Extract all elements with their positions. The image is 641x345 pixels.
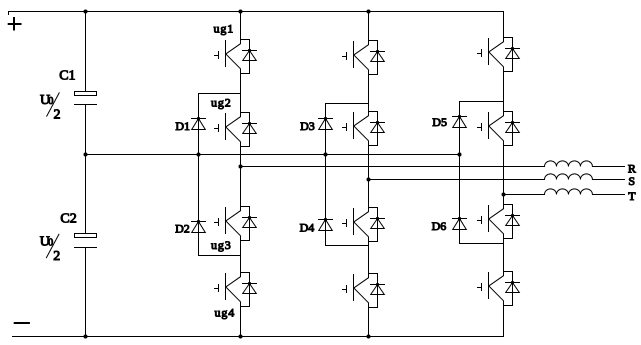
IGBT Q3 leg A: antiparallel diode cathode bar [243, 217, 257, 219]
clamp diode D3: cathode bar [319, 118, 333, 120]
IGBT Q4 leg C: antiparallel diode cathode bar [506, 282, 520, 284]
IGBT Q1 leg A: body bar [225, 41, 227, 67]
clamp diode D5: triangle [453, 117, 467, 128]
IGBT Q1 leg B: body bar [353, 42, 355, 68]
IGBT Q2 leg A: antiparallel diode triangle [243, 124, 257, 134]
IGBT Q2 leg C: gate bar [481, 124, 483, 131]
IGBT Q3 leg C: gate lead [478, 220, 482, 222]
IGBT Q1 leg B: diode junction dot [376, 50, 379, 53]
IGBT Q4 leg B: transistor body (collector stub, diagonals, emitter stub) [354, 274, 369, 308]
label ug4 [215, 305, 236, 319]
IGBT Q3 leg B: antiparallel diode cathode bar [371, 218, 385, 220]
wire: leg C lower clamp connection [460, 243, 504, 245]
node: bottom rail / capacitor branch junction [84, 335, 88, 339]
label C2 [60, 212, 76, 227]
svg-text:T: T [628, 189, 636, 203]
IGBT Q2 leg B: diode junction dot [376, 121, 379, 124]
IGBT Q1 leg C: diode junction dot [511, 47, 514, 50]
svg-text:C2: C2 [60, 212, 76, 227]
IGBT Q3 leg B: diode junction dot [376, 217, 379, 220]
IGBT Q4 leg A: transistor body (collector stub, diagonals, emitter stub) [226, 273, 241, 307]
IGBT Q4 leg B: body bar [353, 275, 355, 301]
IGBT Q2 leg C: collector frame and antiparallel-diode branch [504, 112, 513, 146]
clamp diode D4: junction dot [324, 218, 327, 221]
IGBT Q2 leg B: gate bar [346, 124, 348, 131]
IGBT Q1 leg C: body bar [488, 39, 490, 65]
label: - (DC negative) [15, 322, 29, 324]
wire: top rail to C1 [85, 12, 87, 92]
inductor L-R [545, 161, 593, 167]
node: top rail / capacitor branch junction [84, 10, 88, 14]
IGBT Q3 leg B: gate bar [346, 220, 348, 227]
IGBT Q3 leg A: gate bar [218, 219, 220, 226]
label ug3 [211, 238, 232, 252]
clamp diode D2: cathode bar [192, 221, 206, 223]
svg-text:ug2: ug2 [211, 96, 232, 110]
label: + (DC positive) [9, 18, 21, 30]
IGBT Q2 leg B: collector frame and antiparallel-diode branch [369, 112, 378, 146]
clamp diode D3: junction dot [324, 117, 327, 120]
label D5 [432, 115, 447, 129]
IGBT Q4 leg C: gate lead [478, 287, 482, 289]
node: leg B output (S) [367, 178, 371, 182]
capacitor C2 [75, 234, 97, 248]
clamp diode D1: triangle [192, 119, 206, 130]
IGBT Q2 leg C: antiparallel diode cathode bar [506, 122, 520, 124]
IGBT Q2 leg A: gate lead [215, 128, 219, 130]
wire: bottom DC- rail [13, 336, 504, 338]
IGBT Q1 leg A: transistor body (collector stub, diagonals, emitter stub) [226, 40, 241, 74]
IGBT Q3 leg B: gate lead [343, 223, 347, 225]
inductor L-T [545, 189, 593, 195]
IGBT Q4 leg C: transistor body (collector stub, diagonals, emitter stub) [489, 272, 504, 306]
wire: leg C clamp-diode branch [459, 102, 461, 244]
clamp diode D3: triangle [319, 119, 333, 130]
IGBT Q1 leg A: gate lead [215, 55, 219, 57]
IGBT Q1 leg A: antiparallel diode triangle [243, 51, 257, 61]
wire: leg B lower clamp connection [326, 245, 369, 247]
IGBT Q1 leg C: gate bar [481, 50, 483, 57]
IGBT Q4 leg A: body bar [225, 274, 227, 300]
svg-text:D1: D1 [175, 119, 190, 133]
svg-text:D6: D6 [432, 219, 447, 233]
wire: C1 to neutral node [85, 105, 87, 234]
IGBT Q2 leg A: gate bar [218, 125, 220, 132]
wire: leg C main vertical [503, 12, 505, 337]
IGBT Q3 leg C: diode junction dot [511, 214, 514, 217]
label D1 [175, 119, 190, 133]
label D2 [175, 222, 190, 236]
node: leg B clamp branch / neutral [324, 153, 328, 157]
IGBT Q2 leg C: diode junction dot [511, 121, 514, 124]
IGBT Q3 leg A: transistor body (collector stub, diagonals, emitter stub) [226, 207, 241, 241]
IGBT Q3 leg B: antiparallel diode triangle [371, 219, 385, 229]
svg-text:D3: D3 [300, 119, 315, 133]
label ug2 [211, 96, 232, 110]
label D6 [432, 219, 447, 233]
IGBT Q3 leg A: collector frame and antiparallel-diode branch [241, 207, 250, 241]
node: leg C output (T) [502, 193, 506, 197]
clamp diode D5: cathode bar [453, 116, 467, 118]
label D4 [300, 221, 315, 235]
IGBT Q2 leg C: antiparallel diode triangle [506, 123, 520, 133]
clamp diode D4: cathode bar [319, 219, 333, 221]
IGBT Q2 leg A: body bar [225, 114, 227, 140]
clamp diode D4: triangle [319, 220, 333, 231]
wire: phase T output line [504, 194, 625, 196]
svg-text:S: S [628, 174, 635, 188]
clamp diode D5: junction dot [458, 115, 461, 118]
IGBT Q1 leg B: gate bar [346, 53, 348, 60]
wire: leg A upper clamp connection [199, 93, 241, 95]
wire: leg A clamp-diode branch [198, 94, 200, 256]
clamp diode D6: cathode bar [453, 218, 467, 220]
svg-text:C1: C1 [59, 68, 75, 83]
IGBT Q4 leg C: collector frame and antiparallel-diode branch [504, 272, 513, 306]
svg-text:D2: D2 [175, 222, 190, 236]
IGBT Q3 leg A: gate lead [215, 222, 219, 224]
label U0/2 (upper) [40, 93, 61, 123]
clamp diode D1: cathode bar [192, 118, 206, 120]
IGBT Q1 leg C: transistor body (collector stub, diagonals, emitter stub) [489, 38, 504, 72]
IGBT Q4 leg B: gate lead [343, 289, 347, 291]
label T [628, 189, 636, 203]
IGBT Q2 leg A: diode junction dot [248, 122, 251, 125]
IGBT Q3 leg C: antiparallel diode cathode bar [506, 215, 520, 217]
IGBT Q3 leg A: body bar [225, 208, 227, 234]
svg-text:ug3: ug3 [211, 238, 232, 252]
svg-text:D4: D4 [300, 221, 315, 235]
IGBT Q2 leg A: transistor body (collector stub, diagonals, emitter stub) [226, 113, 241, 147]
IGBT Q1 leg B: transistor body (collector stub, diagonals, emitter stub) [354, 41, 369, 75]
IGBT Q4 leg B: gate bar [346, 286, 348, 293]
wire: leg B clamp-diode branch [325, 104, 327, 246]
wire: C2 to bottom rail [85, 248, 87, 337]
wire: neutral bus [86, 154, 460, 156]
node: top rail / leg A junction [239, 10, 243, 14]
IGBT Q3 leg A: diode junction dot [248, 216, 251, 219]
IGBT Q4 leg A: antiparallel diode cathode bar [243, 283, 257, 285]
IGBT Q4 leg B: diode junction dot [376, 283, 379, 286]
IGBT Q2 leg A: collector frame and antiparallel-diode branch [241, 113, 250, 147]
wire: phase R output line [241, 166, 625, 168]
IGBT Q2 leg B: antiparallel diode cathode bar [371, 122, 385, 124]
inductor L-S [545, 174, 593, 180]
IGBT Q1 leg A: collector frame and antiparallel-diode branch [241, 40, 250, 74]
IGBT Q3 leg B: body bar [353, 209, 355, 235]
node: bottom rail / leg A junction [239, 335, 243, 339]
IGBT Q3 leg C: collector frame and antiparallel-diode branch [504, 205, 513, 239]
wire: leg A main vertical [240, 12, 242, 337]
IGBT Q4 leg C: gate bar [481, 284, 483, 291]
IGBT Q3 leg C: antiparallel diode triangle [506, 216, 520, 226]
svg-text:2: 2 [53, 249, 60, 264]
IGBT Q2 leg A: antiparallel diode cathode bar [243, 123, 257, 125]
clamp diode D2: junction dot [197, 220, 200, 223]
svg-text:ug1: ug1 [214, 22, 235, 36]
IGBT Q1 leg C: antiparallel diode triangle [506, 49, 520, 59]
svg-text:2: 2 [54, 108, 61, 123]
label R [628, 162, 636, 176]
node: leg A output (R) [239, 165, 243, 169]
node: bottom rail / leg B junction [367, 335, 371, 339]
IGBT Q4 leg C: body bar [488, 273, 490, 299]
label D3 [300, 119, 315, 133]
IGBT Q3 leg C: transistor body (collector stub, diagonals, emitter stub) [489, 205, 504, 239]
IGBT Q3 leg C: body bar [488, 206, 490, 232]
clamp diode D1: junction dot [197, 117, 200, 120]
svg-text:D5: D5 [432, 115, 447, 129]
IGBT Q1 leg B: antiparallel diode cathode bar [371, 51, 385, 53]
label U0/2 (lower) [40, 234, 61, 264]
IGBT Q4 leg A: gate bar [218, 285, 220, 292]
IGBT Q4 leg C: diode junction dot [511, 281, 514, 284]
IGBT Q1 leg B: collector frame and antiparallel-diode branch [369, 41, 378, 75]
IGBT Q2 leg B: transistor body (collector stub, diagonals, emitter stub) [354, 112, 369, 146]
label S [628, 174, 635, 188]
IGBT Q3 leg C: gate bar [481, 217, 483, 224]
node: neutral point (C1/C2 midpoint) [84, 153, 88, 157]
IGBT Q2 leg B: gate lead [343, 127, 347, 129]
wire: leg B main vertical [368, 12, 370, 337]
IGBT Q2 leg C: body bar [488, 113, 490, 139]
IGBT Q4 leg A: gate lead [215, 288, 219, 290]
IGBT Q2 leg C: transistor body (collector stub, diagonals, emitter stub) [489, 112, 504, 146]
IGBT Q3 leg A: antiparallel diode triangle [243, 218, 257, 228]
IGBT Q2 leg B: body bar [353, 113, 355, 139]
IGBT Q4 leg B: antiparallel diode triangle [371, 285, 385, 295]
IGBT Q3 leg B: transistor body (collector stub, diagonals, emitter stub) [354, 208, 369, 242]
IGBT Q2 leg C: gate lead [478, 127, 482, 129]
clamp diode D6: junction dot [458, 217, 461, 220]
IGBT Q1 leg C: gate lead [478, 53, 482, 55]
svg-text:ug4: ug4 [215, 305, 236, 319]
label ug1 [214, 22, 235, 36]
IGBT Q3 leg B: collector frame and antiparallel-diode branch [369, 208, 378, 242]
IGBT Q1 leg C: antiparallel diode cathode bar [506, 48, 520, 50]
clamp diode D6: triangle [453, 219, 467, 230]
IGBT Q4 leg A: antiparallel diode triangle [243, 284, 257, 294]
IGBT Q4 leg A: collector frame and antiparallel-diode branch [241, 273, 250, 307]
node: top rail / leg B junction [367, 10, 371, 14]
wire: leg B upper clamp connection [326, 103, 369, 105]
wire: leg C upper clamp connection [460, 101, 504, 103]
IGBT Q1 leg B: antiparallel diode triangle [371, 52, 385, 62]
node: leg C clamp branch / neutral [458, 153, 462, 157]
IGBT Q4 leg C: antiparallel diode triangle [506, 283, 520, 293]
wire: leg A lower clamp connection [199, 255, 241, 257]
IGBT Q4 leg B: collector frame and antiparallel-diode branch [369, 274, 378, 308]
IGBT Q1 leg A: antiparallel diode cathode bar [243, 50, 257, 52]
IGBT Q1 leg A: diode junction dot [248, 49, 251, 52]
wire: phase S output line [369, 179, 625, 181]
IGBT Q4 leg B: antiparallel diode cathode bar [371, 284, 385, 286]
IGBT Q1 leg A: gate bar [218, 52, 220, 59]
label C1 [59, 68, 75, 83]
IGBT Q1 leg B: gate lead [343, 56, 347, 58]
capacitor C1 [75, 92, 97, 105]
IGBT Q4 leg A: diode junction dot [248, 282, 251, 285]
IGBT Q1 leg C: collector frame and antiparallel-diode branch [504, 38, 513, 72]
node: leg A clamp branch / neutral [197, 153, 201, 157]
wire: top DC+ rail [9, 12, 504, 15]
IGBT Q2 leg B: antiparallel diode triangle [371, 123, 385, 133]
clamp diode D2: triangle [192, 222, 206, 233]
